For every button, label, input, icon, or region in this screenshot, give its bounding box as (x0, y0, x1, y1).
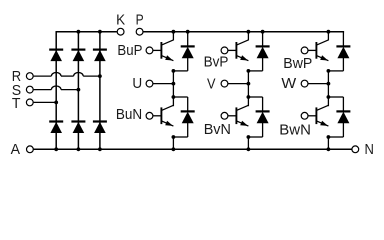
wire: N bus bottom rail (34, 148, 352, 150)
terminal K (117, 28, 124, 35)
diode DwN cathode bar (336, 110, 350, 112)
wire: DuP anode leg (187, 58, 189, 71)
wire: DwN anode leg (342, 123, 344, 137)
wire: DvN anode link (248, 136, 262, 138)
wire: DwN anode link (328, 136, 343, 138)
wire: QwN emitter to N rail (327, 137, 329, 149)
terminal BwP gate (301, 47, 308, 54)
wire: R lead segment 3 (83, 75, 100, 77)
terminal N (352, 146, 359, 153)
svg-text:BuP: BuP (117, 43, 142, 59)
node: QwP collector to P rail (327, 30, 331, 34)
terminal U (146, 80, 153, 87)
svg-text:W: W (281, 76, 296, 92)
transistor QvN (IGBT lower V-phase) (228, 105, 249, 126)
diode D2P body (73, 50, 85, 61)
svg-text:T: T (12, 96, 21, 112)
label BvP (204, 54, 229, 70)
wire: DvP anode link (248, 70, 262, 72)
node: DuP cathode to P rail (186, 30, 190, 34)
wire: S hop over leg1 (51, 86, 61, 90)
wire: DuP anode link (173, 70, 187, 72)
wire: QwP collector riser (327, 32, 329, 41)
node: QwN emitter junction (327, 135, 331, 139)
node: DvP cathode to P rail (261, 30, 265, 34)
wire: rectifier leg 1 vertical (55, 32, 57, 150)
diode DvP cathode bar (256, 45, 270, 47)
wire: V terminal lead (228, 83, 249, 85)
node: S to leg2 junction (77, 88, 81, 92)
terminal P (136, 28, 143, 35)
label BuP (117, 43, 142, 59)
label S (12, 83, 22, 99)
wire: R hop over leg2 (74, 73, 84, 77)
label BvN (204, 122, 231, 138)
wire: rectifier leg 3 vertical (99, 32, 101, 150)
diode D1N body (50, 122, 62, 133)
transistor QuN (IGBT lower U-phase) (153, 105, 174, 126)
wire: DvN cathode leg (262, 97, 264, 112)
node: leg3 to bottom rail junction (98, 147, 102, 151)
wire: DvN anode leg (262, 123, 264, 137)
wire: U terminal lead (153, 83, 174, 85)
label W (281, 76, 296, 92)
node: phase U to N rail junction (172, 147, 176, 151)
node: leg1 to bottom rail junction (54, 147, 58, 151)
svg-text:A: A (11, 142, 21, 158)
diode D2N body (73, 122, 85, 133)
diode DwP cathode bar (336, 45, 350, 47)
node: QvN emitter junction (247, 135, 251, 139)
wire: DwP cathode leg (342, 32, 344, 47)
diode D2N cathode bar (71, 120, 85, 122)
node: U junction (172, 82, 176, 86)
transistor QvP (IGBT upper V-phase) (228, 40, 249, 61)
terminal S (26, 86, 33, 93)
diode DvP body (257, 47, 269, 58)
terminal BuN gate (146, 112, 153, 119)
transistor QwP (IGBT upper W-phase) (308, 40, 328, 61)
label U (132, 76, 142, 92)
wire: S lead segment 1 (34, 89, 52, 91)
wire: rectifier leg 2 vertical (77, 32, 79, 150)
node: V junction (247, 82, 251, 86)
node: W junction (327, 82, 331, 86)
wire: QuP collector riser (172, 32, 174, 41)
svg-text:P: P (136, 12, 144, 28)
diode D1P body (50, 50, 62, 61)
wire: T lead (34, 101, 57, 103)
wire: QvP collector riser (247, 32, 249, 41)
wire: rectifier top rail to K (56, 31, 117, 33)
diode D3N cathode bar (93, 120, 107, 122)
node: QuP collector to P rail (172, 30, 176, 34)
diode DvN cathode bar (256, 110, 270, 112)
node: QwP emitter junction (327, 69, 331, 73)
terminal W (301, 80, 308, 87)
label P (136, 12, 144, 28)
diode D3P cathode bar (93, 48, 107, 50)
label A (11, 142, 21, 158)
wire: DwP anode link (328, 70, 343, 72)
wire: DvP cathode leg (262, 32, 264, 47)
node: QvP collector to P rail (247, 30, 251, 34)
svg-text:N: N (365, 142, 374, 158)
node: DwN cathode junction (327, 95, 331, 99)
label BuN (116, 107, 142, 123)
svg-text:BwN: BwN (279, 122, 311, 138)
terminal V (221, 80, 228, 87)
transistor QuP (IGBT upper U-phase) (153, 40, 174, 61)
node: QvP emitter junction (247, 69, 251, 73)
label K (116, 12, 125, 28)
node: DvN cathode junction (247, 95, 251, 99)
diode D1N cathode bar (49, 120, 63, 122)
wire: P bus rail (143, 31, 344, 33)
terminal A (27, 146, 34, 153)
node: R to leg3 junction (98, 74, 102, 78)
diode D3P body (94, 50, 106, 61)
diode D2P cathode bar (71, 48, 85, 50)
diode DvN body (257, 112, 269, 123)
node: phase V to N rail junction (247, 147, 251, 151)
diode DwP body (337, 47, 349, 58)
terminal BwN gate (301, 112, 308, 119)
terminal BvP gate (221, 47, 228, 54)
wire: phase V column (247, 71, 249, 106)
node: phase W to N rail junction (327, 147, 331, 151)
label BwN (279, 122, 311, 138)
diode DuP cathode bar (181, 45, 195, 47)
diode DuN cathode bar (181, 110, 195, 112)
node: leg3 to top rail junction (98, 30, 102, 34)
wire: DuN cathode link (173, 96, 187, 98)
wire: W terminal lead (308, 83, 328, 85)
wire: DuP cathode leg (187, 32, 189, 47)
node: QuN emitter junction (172, 135, 176, 139)
transistor QwN (IGBT lower W-phase) (308, 105, 328, 126)
wire: S lead segment 2 (61, 89, 78, 91)
node: leg2 to top rail junction (77, 30, 81, 34)
wire: DuN anode link (173, 136, 187, 138)
wire: DwP anode leg (342, 58, 344, 71)
diode D1P cathode bar (49, 48, 63, 50)
label T (12, 96, 21, 112)
svg-text:V: V (207, 76, 216, 92)
svg-text:BwP: BwP (283, 56, 312, 72)
wire: phase U column (172, 71, 174, 106)
wire: DvN cathode link (248, 96, 262, 98)
svg-text:BvN: BvN (204, 122, 231, 138)
label V (207, 76, 216, 92)
wire: phase W column (327, 71, 329, 106)
diode DuN body (182, 112, 194, 123)
svg-text:BvP: BvP (204, 54, 229, 70)
wire: R lead segment 1 (34, 75, 52, 77)
diode DwN body (337, 112, 349, 123)
wire: DwN cathode leg (342, 97, 344, 112)
wire: DwN cathode link (328, 96, 343, 98)
terminal T (26, 99, 33, 106)
terminal BvN gate (221, 112, 228, 119)
node: DuN cathode junction (172, 95, 176, 99)
wire: DuN anode leg (187, 123, 189, 137)
label R (12, 69, 21, 85)
node: QuP emitter junction (172, 69, 176, 73)
diode D3N body (94, 122, 106, 133)
terminal R (26, 73, 33, 80)
svg-text:U: U (132, 76, 142, 92)
label N (365, 142, 374, 158)
svg-text:BuN: BuN (116, 107, 142, 123)
node: T to leg1 junction (54, 101, 58, 105)
wire: R hop over leg1 (51, 73, 61, 77)
wire: R lead segment 2 (61, 75, 74, 77)
diode DuP body (182, 47, 194, 58)
wire: QvN emitter to N rail (247, 137, 249, 149)
wire: QuN emitter to N rail (172, 137, 174, 149)
terminal BuP gate (146, 47, 153, 54)
svg-text:K: K (116, 12, 125, 28)
wire: DvP anode leg (262, 58, 264, 71)
label BwP (283, 56, 312, 72)
wire: DuN cathode leg (187, 97, 189, 112)
node: leg2 to bottom rail junction (77, 147, 81, 151)
